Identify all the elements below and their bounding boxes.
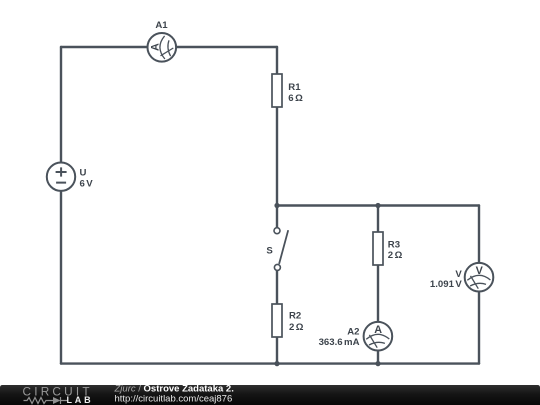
- node junction at R3 top: [375, 203, 380, 208]
- resistor R3: [373, 232, 383, 265]
- wire middle column upper segment: [276, 47, 278, 228]
- svg-text:R1: R1: [288, 82, 301, 93]
- ammeter A2: [364, 322, 393, 351]
- svg-text:6 V: 6 V: [80, 179, 94, 190]
- svg-text:LAB: LAB: [67, 395, 94, 405]
- switch S: [274, 228, 288, 271]
- svg-text:A1: A1: [155, 20, 168, 31]
- wire middle column lower segment: [276, 271, 278, 364]
- svg-text:6 Ω: 6 Ω: [288, 93, 303, 104]
- resistor R2: [272, 304, 282, 337]
- wire right vertical: [478, 206, 480, 364]
- voltage source U: [47, 163, 75, 191]
- wire mid horizontal: [277, 204, 479, 206]
- wire top horizontal: [61, 46, 277, 48]
- svg-text:363.6 mA: 363.6 mA: [319, 337, 360, 348]
- voltmeter V: [465, 263, 494, 292]
- node junction bottom right: [375, 361, 380, 366]
- svg-text:http://circuitlab.com/ceaj876: http://circuitlab.com/ceaj876: [115, 394, 233, 405]
- svg-text:U: U: [80, 168, 87, 179]
- svg-text:V: V: [455, 269, 462, 280]
- node junction bottom left: [274, 361, 279, 366]
- svg-text:A: A: [374, 324, 382, 336]
- wire left vertical: [60, 47, 62, 364]
- svg-text:R2: R2: [289, 311, 301, 322]
- CircuitLab logo zigzag and diode: [24, 397, 69, 404]
- svg-text:2 Ω: 2 Ω: [388, 250, 403, 261]
- svg-text:S: S: [266, 245, 273, 256]
- ammeter A1: [148, 33, 177, 62]
- wire R3 column: [377, 206, 379, 364]
- svg-text:2 Ω: 2 Ω: [289, 322, 304, 333]
- node junction at switch top: [274, 203, 279, 208]
- svg-text:A: A: [149, 43, 161, 51]
- svg-text:R3: R3: [388, 239, 400, 250]
- resistor R1: [272, 74, 282, 107]
- svg-text:A2: A2: [347, 326, 359, 337]
- wire bottom horizontal: [61, 362, 479, 364]
- svg-text:V: V: [476, 265, 484, 277]
- svg-text:1.091 V: 1.091 V: [430, 279, 462, 290]
- footer bar: [0, 385, 540, 405]
